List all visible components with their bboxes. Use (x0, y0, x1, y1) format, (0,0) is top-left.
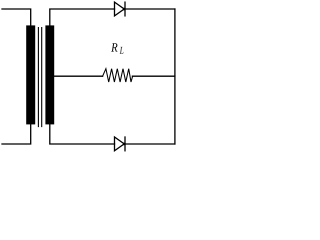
wire secondary top to D1 anode (50, 9, 115, 25)
wire right rail (174, 9, 176, 144)
transformer T1 core (38, 28, 41, 127)
wire primary bottom (2, 124, 31, 144)
wire D1 cathode to right rail (125, 8, 175, 10)
wire center tap to resistor (54, 75, 102, 77)
wire primary top (2, 9, 31, 25)
label RL (111, 43, 123, 54)
diode D2 (115, 137, 126, 151)
transformer T1 secondary winding (45, 25, 54, 124)
diode D1 (115, 2, 126, 16)
transformer T1 primary winding (26, 25, 35, 124)
wire secondary bottom to D2 anode (50, 124, 115, 144)
wire resistor to right rail (132, 75, 175, 77)
wire bottom rail right of D2 (125, 143, 175, 145)
resistor RL zigzag (103, 69, 133, 82)
